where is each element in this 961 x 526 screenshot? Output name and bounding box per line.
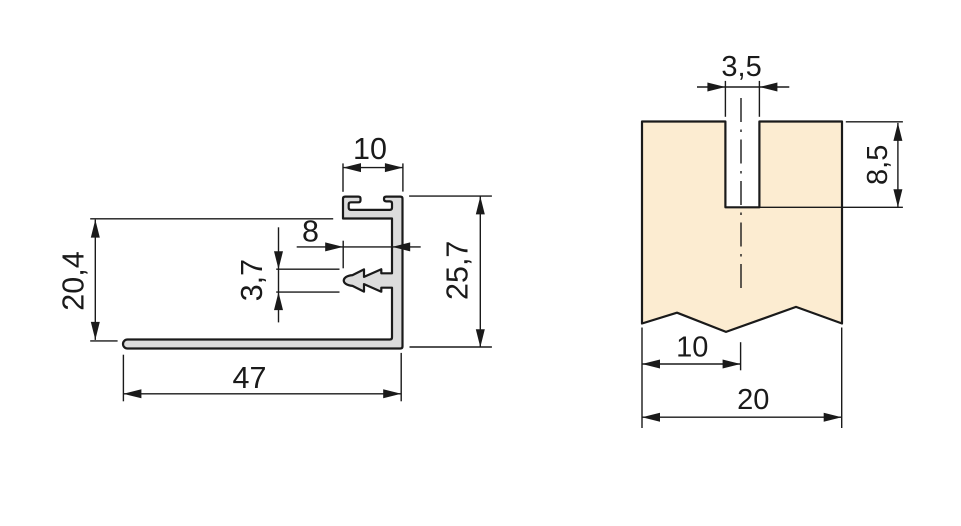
dimension line [123, 393, 401, 395]
extension line bottom [759, 206, 903, 208]
dimension line [642, 363, 741, 365]
dimension line vertical [94, 220, 96, 340]
extension line right (centerline continuation) [740, 342, 742, 370]
extension line left [342, 163, 344, 191]
wood panel cross-section with groove (right drawing) [642, 122, 842, 332]
dimension 3,7 (barb height) [276, 227, 339, 322]
extension line left [641, 328, 643, 429]
dimension 8 (barb depth) [297, 241, 421, 269]
dimension line [697, 86, 789, 88]
dimension line vertical [479, 196, 481, 347]
arrowheads 20 [642, 413, 660, 422]
dimension 10 (groove position, right drawing) [642, 342, 741, 370]
extension line bottom [90, 340, 117, 342]
extension line right [402, 163, 404, 191]
dimension 20 (panel width) [642, 328, 842, 429]
svg-text:10: 10 [353, 132, 387, 166]
svg-text:3,7: 3,7 [235, 259, 269, 301]
svg-text:8,5: 8,5 [862, 145, 894, 185]
groove centerline (dash-dot) [740, 98, 742, 288]
svg-text:3,5: 3,5 [721, 51, 761, 83]
extension line lower [276, 291, 339, 293]
dimension line [642, 416, 842, 418]
dimension line vertical [897, 123, 899, 207]
dimension 8,5 (groove depth) [759, 122, 903, 208]
svg-text:20,4: 20,4 [57, 251, 91, 310]
arrowheads 3,5 [707, 83, 725, 92]
extension line at barb tip [342, 241, 344, 269]
arrowheads 8 [325, 242, 343, 251]
arrowheads 10 right drawing [642, 360, 660, 369]
dimension line [343, 167, 403, 169]
extension line right [841, 328, 843, 429]
arrowheads 25,7 [476, 196, 485, 214]
arrowheads 10 [343, 163, 361, 172]
dimension line vertical [278, 227, 280, 322]
extension line left [122, 355, 124, 402]
dimension 3,5 (groove width) [697, 81, 789, 117]
extension line top [409, 195, 492, 197]
extension line top [90, 218, 333, 220]
dimension line [297, 246, 421, 248]
arrowheads 3,7 [274, 251, 283, 269]
extension line top [846, 121, 903, 123]
svg-text:20: 20 [737, 384, 769, 416]
extension line left [724, 81, 726, 117]
svg-text:25,7: 25,7 [441, 241, 475, 300]
extension line bottom [410, 346, 492, 348]
extension line right [400, 353, 402, 401]
svg-text:10: 10 [676, 331, 708, 363]
dimension 47 (bottom width) [123, 353, 401, 401]
extension line upper [276, 268, 339, 270]
svg-text:47: 47 [233, 361, 267, 395]
aluminium profile cross-section (left drawing) [123, 197, 403, 349]
dimension 25,7 (right height) [409, 196, 492, 347]
dimension 20,4 (left height) [90, 219, 333, 341]
extension line right [758, 81, 760, 117]
arrowheads 8,5 [893, 123, 902, 141]
arrowheads 47 [123, 389, 141, 398]
arrowheads 20,4 [91, 220, 100, 238]
dimension 10 (top of profile) [343, 163, 403, 191]
